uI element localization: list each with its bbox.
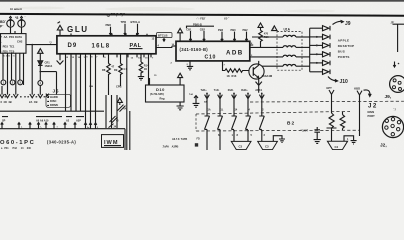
svg-text:!: ! bbox=[273, 27, 274, 31]
wire PB2 arrow bbox=[221, 32, 223, 41]
J5 leader dashes between pins bbox=[5, 96, 46, 98]
svg-text:470: 470 bbox=[264, 32, 269, 36]
inductor L3 bbox=[283, 55, 296, 57]
svg-text:PB2: PB2 bbox=[218, 28, 224, 32]
ADB left pin 16 bbox=[172, 45, 176, 47]
wire row3 left bbox=[250, 56, 283, 58]
svg-text:U1A: U1A bbox=[284, 28, 291, 32]
wire KBD down bbox=[359, 95, 361, 136]
TxD clamp diode bbox=[194, 95, 198, 103]
J5 leader dashes bbox=[47, 97, 49, 105]
svg-text:AA PD1 DATA: AA PD1 DATA bbox=[4, 35, 22, 39]
wire B1 to GLU box bbox=[26, 44, 57, 46]
svg-text:R9: R9 bbox=[114, 68, 118, 72]
buffer C3a bbox=[231, 141, 251, 149]
wire PAL pin into D10 top bbox=[149, 78, 151, 85]
svg-text:CR1: CR1 bbox=[45, 61, 51, 65]
svg-text:R14: R14 bbox=[144, 63, 149, 67]
wire PB6 arrow bbox=[109, 27, 111, 35]
inductor L1 bbox=[283, 35, 296, 37]
svg-text:PD3 TC1: PD3 TC1 bbox=[3, 44, 15, 48]
svg-text:J9: J9 bbox=[345, 21, 351, 27]
svg-text:RxD-: RxD- bbox=[228, 89, 234, 92]
wire CB2 arrow bbox=[203, 31, 205, 41]
wire PB2b arrow bbox=[245, 32, 247, 41]
svg-text:CB1: CB1 bbox=[186, 27, 192, 31]
capacitor C bbox=[314, 127, 320, 140]
svg-text:D9: D9 bbox=[68, 43, 78, 49]
svg-text:ˉˉ3A5T: ˉˉ3A5T bbox=[301, 129, 309, 132]
wire PAL pin to D10 bbox=[148, 54, 150, 85]
resistor RZ2 bbox=[340, 112, 345, 131]
IC box GLU/PAL D9 bbox=[57, 36, 156, 54]
ADB right pin stubs bbox=[250, 45, 253, 57]
svg-text:A3.7.8 TxPB: A3.7.8 TxPB bbox=[172, 138, 187, 141]
circled pin 4 bbox=[38, 81, 43, 86]
J5 shield mark bbox=[46, 94, 49, 97]
svg-text:D10: D10 bbox=[156, 87, 165, 92]
wire row2 right bbox=[296, 46, 310, 48]
resistor R10 bbox=[259, 30, 263, 47]
junction dots on B2 bottom bbox=[233, 130, 235, 132]
J9 pin wire 2 bbox=[310, 36, 323, 38]
svg-text:R16: R16 bbox=[232, 74, 237, 78]
TxD- node arrow bbox=[219, 93, 221, 95]
svg-text:5 3 11 9 6: 5 3 11 9 6 bbox=[4, 56, 16, 58]
GLU power symbol bbox=[57, 22, 62, 36]
svg-text:C10: C10 bbox=[205, 54, 217, 60]
svg-text:R8: R8 bbox=[102, 68, 106, 72]
DIN connector J2 face bbox=[382, 116, 403, 137]
svg-text:DISC: DISC bbox=[50, 99, 56, 103]
B2 dashed box left bbox=[195, 114, 197, 131]
wire row2 left bbox=[250, 46, 283, 48]
svg-text:PB2: PB2 bbox=[243, 28, 249, 32]
ground at capacitor bbox=[314, 140, 321, 144]
svg-text:BDˉ: BDˉ bbox=[0, 20, 7, 24]
TxD+ node arrow bbox=[206, 93, 208, 95]
note circle 1 caret bbox=[9, 16, 11, 18]
svg-text:ADB: ADB bbox=[226, 49, 244, 56]
svg-text:TxD-: TxD- bbox=[214, 89, 220, 92]
J10 pin wire 6 bbox=[310, 71, 323, 73]
svg-text:PORT: PORT bbox=[368, 114, 376, 118]
svg-text:BUS: BUS bbox=[338, 50, 345, 54]
B1 extra top pin stub bbox=[14, 31, 16, 34]
svg-text:J9,: J9, bbox=[385, 94, 392, 100]
J10 arrow bbox=[328, 77, 338, 83]
svg-text:Reg: Reg bbox=[160, 97, 165, 101]
svg-text:P: P bbox=[0, 35, 2, 39]
wire GLU bus lines down to IWM bbox=[86, 54, 96, 129]
svg-text:C3: C3 bbox=[265, 145, 269, 149]
wires into IWM area bbox=[106, 95, 117, 128]
driver element Q b bbox=[218, 116, 223, 129]
DIN connector J9 face bbox=[390, 76, 404, 93]
IC box D10 bbox=[146, 85, 185, 102]
wire TPD arrow bbox=[124, 24, 126, 35]
bus line bottom arrowheads bbox=[84, 123, 97, 125]
svg-text:2A CB: 2A CB bbox=[29, 100, 38, 104]
transistor Q3 bbox=[249, 64, 264, 79]
svg-text:A8 A9 A10: A8 A9 A10 bbox=[36, 120, 49, 123]
svg-text:tri ameri: tri ameri bbox=[10, 7, 22, 11]
scan top edge bbox=[0, 0, 404, 2]
buffer C3b bbox=[258, 141, 278, 149]
svg-text:RxD+: RxD+ bbox=[241, 89, 248, 92]
wire row4 right bbox=[296, 65, 310, 67]
wire GPT down bbox=[331, 94, 333, 113]
svg-text:VJ-ˉˉ: VJ-ˉˉ bbox=[224, 18, 230, 21]
svg-text:TxD+: TxD+ bbox=[201, 89, 208, 92]
svg-text:FD0 TC0: FD0 TC0 bbox=[3, 49, 15, 53]
feedback loop wire at C3b bbox=[273, 136, 282, 142]
svg-text:!: ! bbox=[39, 50, 40, 54]
jumper 45 bbox=[110, 116, 118, 123]
driver element Q e bbox=[259, 116, 264, 129]
black jumper square bbox=[195, 143, 198, 146]
circled pin 2 bbox=[10, 80, 15, 85]
marks above DIN J9 bbox=[393, 62, 395, 68]
svg-text:(340-0235-A): (340-0235-A) bbox=[47, 140, 76, 145]
resistor R9 stub bbox=[120, 54, 122, 64]
resistor R8 bbox=[107, 64, 111, 84]
circled pin 3 bbox=[18, 80, 23, 85]
svg-text:DRIVE: DRIVE bbox=[50, 103, 58, 107]
PAL bottom pin stubs bbox=[104, 54, 152, 58]
svg-text:HARD: HARD bbox=[50, 95, 58, 99]
svg-text:16L8: 16L8 bbox=[92, 43, 111, 49]
svg-text:TPD: TPD bbox=[121, 20, 127, 24]
inductor L4 bbox=[283, 64, 296, 66]
RxD- node arrow bbox=[233, 93, 235, 95]
svg-text:(341-0160-B): (341-0160-B) bbox=[180, 47, 209, 52]
power symbol at IWM bbox=[117, 98, 122, 105]
wires below drivers a b bbox=[207, 129, 220, 150]
IWM pin labels with overbars bbox=[2, 116, 84, 118]
svg-text:PB(0-2): PB(0-2) bbox=[193, 22, 202, 26]
boxed net label BTCLB bbox=[157, 33, 173, 38]
connector pin symbol 2 bbox=[323, 34, 331, 39]
circled pin 1 bbox=[1, 80, 6, 85]
wire circle2 to box B1 bbox=[21, 27, 23, 33]
sheet border line bbox=[0, 14, 404, 16]
wire CB1 arrow bbox=[189, 31, 191, 41]
ADB pin 7 wire to R16 bbox=[223, 61, 226, 71]
J5 connector wires bbox=[2, 45, 32, 95]
CPU box top edge bbox=[0, 129, 125, 150]
wire row3 right bbox=[296, 56, 310, 58]
wire into buffer C3a bbox=[234, 131, 248, 142]
ground at TxD clamp bbox=[193, 103, 200, 107]
ground at C4 loop bbox=[351, 141, 357, 144]
svg-text:.TxPA A3PB: .TxPA A3PB bbox=[162, 145, 179, 148]
power symbol above R10 bbox=[258, 23, 263, 30]
bus bracket PB(0-2) bbox=[187, 26, 215, 28]
note circle 2 caret and star bbox=[20, 16, 22, 18]
resistor R14 bbox=[139, 62, 143, 77]
warning triangle note 1 bbox=[38, 49, 43, 54]
RZ1 bottom bar bbox=[327, 128, 337, 141]
wire to diode CR1 bbox=[39, 53, 41, 61]
resistor R14 stub bbox=[140, 54, 142, 62]
note circle 2 bbox=[18, 20, 25, 27]
svg-text:J10: J10 bbox=[340, 79, 349, 85]
PAL top pin ticks bbox=[112, 34, 147, 36]
svg-text:SP: SP bbox=[2, 120, 6, 123]
connector pin symbol 1 bbox=[323, 26, 331, 31]
power symbol at ADB pin 1 bbox=[178, 28, 183, 41]
filter U1A dashed box bbox=[277, 32, 302, 71]
svg-text:KBD: KBD bbox=[354, 87, 360, 91]
svg-text:CB2: CB2 bbox=[200, 27, 206, 31]
feedback loop at C4 bbox=[344, 136, 354, 141]
svg-text:ˉ: ˉ bbox=[25, 16, 26, 20]
junction dots on bus bbox=[316, 36, 318, 38]
wire long PAL pin to bottom bbox=[126, 54, 128, 150]
svg-text:1N914: 1N914 bbox=[45, 64, 53, 68]
RxD+ node arrow bbox=[247, 93, 249, 95]
driver element Q d bbox=[246, 116, 251, 129]
diode CR1 bbox=[38, 61, 43, 66]
jumper 6A bbox=[118, 105, 126, 112]
GLU bottom pin stubs bbox=[60, 54, 81, 111]
junction on CR1 wire bbox=[39, 71, 41, 73]
wire PB0 arrow bbox=[233, 32, 235, 41]
svg-text:a P41 P42 14 3: a P41 P42 14 340 bbox=[1, 147, 31, 150]
section divider line bbox=[0, 110, 104, 112]
svg-text:C4: C4 bbox=[335, 145, 339, 149]
wire PAL to ADB pin 16 bbox=[156, 46, 172, 47]
wire row1 left bbox=[252, 36, 283, 38]
driver C4 bbox=[327, 141, 347, 149]
wire CR1 node to J5 branch bbox=[40, 72, 56, 95]
svg-text:J5: J5 bbox=[53, 89, 60, 94]
J9 pin wire 1 bbox=[310, 27, 323, 29]
driver element Q c bbox=[232, 116, 237, 129]
J5 pin arrows bbox=[0, 94, 4, 98]
J5 name box bbox=[46, 94, 71, 107]
svg-text:DESKTOP: DESKTOP bbox=[338, 44, 355, 48]
ADB pin 2 wire to ground bbox=[189, 61, 191, 67]
junction R10 row1 bbox=[260, 36, 262, 38]
svg-text:MAIN: MAIN bbox=[368, 110, 375, 114]
wire into buffer C3b bbox=[261, 131, 263, 142]
svg-text:GLU: GLU bbox=[67, 25, 89, 34]
note circle 1 bbox=[7, 20, 14, 27]
ground below R14 bbox=[138, 77, 144, 80]
svg-text:BTCLB: BTCLB bbox=[158, 34, 167, 38]
inductor L2 bbox=[283, 46, 296, 48]
B2 dashed box bottom bbox=[196, 129, 360, 132]
resistor R9 bbox=[119, 64, 123, 87]
GPT arrow bbox=[329, 90, 334, 94]
svg-text:O60-1PC: O60-1PC bbox=[0, 140, 35, 146]
J10 pin wire 5 bbox=[310, 62, 323, 64]
svg-text:J2: J2 bbox=[368, 102, 378, 109]
wire row1 right bbox=[296, 36, 310, 38]
ground at ADB pin 2 bbox=[187, 66, 193, 69]
svg-text:⌐ˉ⌐ FB2ˉ: ⌐ˉ⌐ FB2ˉ bbox=[196, 18, 206, 21]
svg-text:6 4O 4B: 6 4O 4B bbox=[1, 100, 12, 104]
svg-text:B2: B2 bbox=[287, 121, 295, 127]
wire R8 node down bbox=[108, 83, 110, 95]
KBD arrow bbox=[357, 91, 362, 95]
resistor RZ1 bbox=[329, 113, 334, 128]
svg-text:ABK1: ABK1 bbox=[255, 89, 262, 92]
svg-text:A3P: A3P bbox=[76, 120, 81, 123]
svg-text:APPLE: APPLE bbox=[338, 38, 350, 42]
wire CR1 down bbox=[39, 65, 41, 94]
wire row4 left bbox=[262, 65, 283, 67]
wire BTCLB arrow to ADB bbox=[163, 38, 165, 42]
ABK1 node arrow bbox=[261, 93, 263, 95]
ground at C3b loop bbox=[279, 139, 285, 142]
B2 dashed box top bbox=[196, 111, 350, 114]
box B1 (left interface IC) bbox=[1, 34, 27, 54]
resistor R16 bbox=[225, 69, 249, 73]
svg-text:1A: 1A bbox=[208, 108, 211, 111]
svg-text:PORTS: PORTS bbox=[338, 55, 350, 59]
jumper 24 bbox=[109, 124, 114, 128]
power wire into D10 bbox=[178, 73, 183, 85]
ground below D10 bbox=[177, 102, 184, 110]
J9 pin wire 3 bbox=[310, 44, 323, 46]
connector pin symbol 5 bbox=[323, 60, 331, 65]
wire BTCLA arrow bbox=[136, 24, 138, 35]
J9 pin wire 4 bbox=[310, 53, 323, 55]
svg-text:BTCLA: BTCLA bbox=[131, 20, 140, 24]
off-page arrow at GLU pin bbox=[57, 61, 64, 65]
svg-text:CPB: CPB bbox=[116, 85, 122, 89]
svg-text:CH2: CH2 bbox=[17, 40, 23, 44]
svg-text:FD: FD bbox=[197, 137, 200, 140]
resistor R8 stub bbox=[108, 54, 110, 64]
svg-text:6A: 6A bbox=[124, 108, 127, 111]
svg-text:1K: 1K bbox=[144, 67, 147, 71]
svg-text:3A3A4M: 3A3A4M bbox=[262, 74, 273, 78]
svg-text:C3: C3 bbox=[239, 145, 243, 149]
svg-text:5A: 5A bbox=[204, 100, 207, 103]
J2 callout arrow bbox=[364, 90, 372, 97]
driver element Q a bbox=[205, 116, 210, 129]
wire second long line bbox=[129, 111, 131, 150]
svg-text:1K: 1K bbox=[227, 74, 230, 78]
svg-text:TxD: TxD bbox=[189, 94, 194, 96]
IC box ADB C10 bbox=[176, 41, 250, 61]
warning triangle note 2 bbox=[272, 26, 277, 31]
IWM pin tick arrows bbox=[1, 123, 77, 129]
dashed net line upper bbox=[250, 100, 404, 103]
svg-text:*8: *8 bbox=[15, 16, 18, 20]
connector pin symbol 4 bbox=[323, 52, 331, 57]
J9 arrow bbox=[333, 20, 344, 24]
GLU top pin tick bbox=[70, 33, 72, 35]
IWM label box bbox=[102, 135, 124, 148]
svg-text:PB6: PB6 bbox=[106, 23, 112, 27]
svg-text:GPT: GPT bbox=[326, 86, 332, 90]
svg-text:PB0: PB0 bbox=[231, 28, 237, 32]
svg-text:J2,: J2, bbox=[380, 142, 387, 148]
svg-text:(S.74LS05): (S.74LS05) bbox=[150, 92, 164, 96]
connector pin symbol 3 bbox=[323, 43, 331, 48]
J9/J10 connector bus bbox=[309, 28, 311, 72]
connector pin symbol 6 bbox=[323, 69, 331, 74]
wire circle1 to box B1 bbox=[10, 27, 12, 33]
